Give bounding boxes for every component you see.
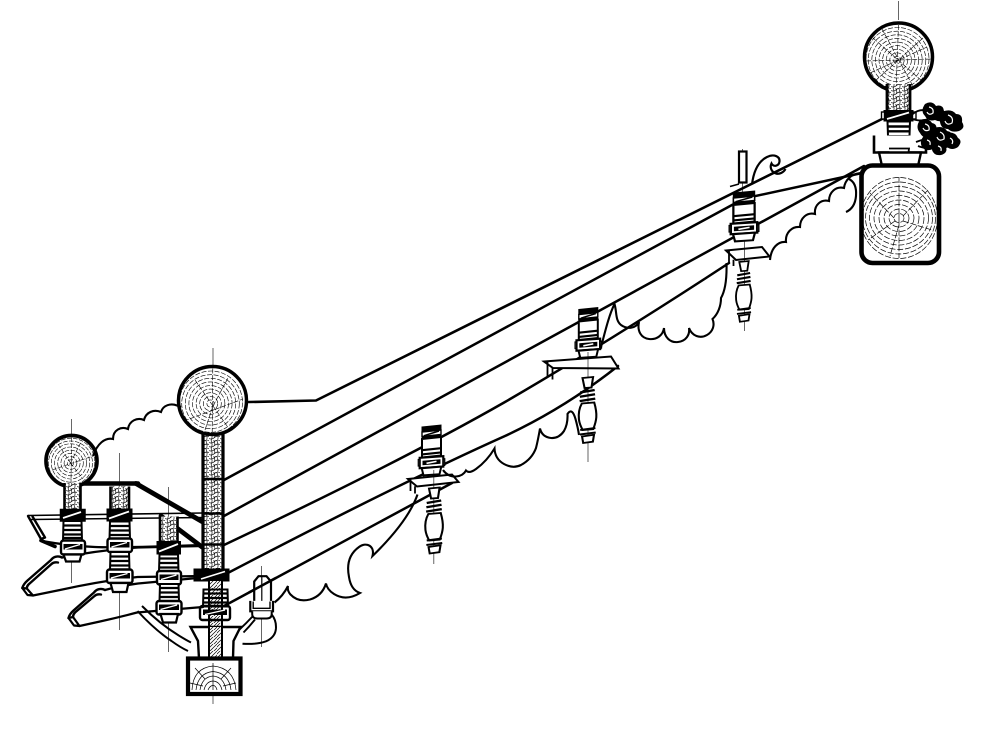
baluster post3: [160, 517, 178, 543]
blade 2 tip curve: [22, 556, 62, 588]
post2 threads2: [110, 552, 130, 570]
post3 collar1 (black): [157, 541, 182, 555]
S1 neck: [887, 84, 910, 111]
rod rib collar: [203, 590, 228, 607]
clamp 3: [729, 191, 759, 241]
strap F2: [224, 166, 864, 516]
post2 skirt: [111, 583, 129, 592]
top sphere S1: [865, 23, 933, 91]
cloud curl below block: [846, 179, 856, 212]
blade 3 tip face: [69, 617, 80, 626]
blade 2 bottom edge: [33, 576, 203, 596]
cup skirt: [879, 153, 921, 167]
handrail H1 bold: [81, 481, 138, 486]
cloud chain shelf3 to block: [770, 173, 861, 260]
tab1 pipe to funnel: [240, 617, 256, 633]
tab1 right loop: [243, 615, 276, 644]
S2 post neck: [65, 483, 81, 511]
cloud chain clamp2 to shelf3: [601, 263, 727, 349]
big sphere finial S3: [179, 367, 247, 435]
top rail A1: [249, 118, 884, 402]
centerline post3: [168, 487, 170, 652]
flower cluster: [912, 102, 963, 155]
centerline pendant 2: [587, 352, 589, 462]
base block B2: [188, 659, 241, 695]
centerline big post: [212, 348, 214, 368]
strap F4: [224, 366, 618, 575]
blade 2 top edge: [62, 546, 203, 558]
S1 ring stack: [888, 122, 911, 137]
post2 collar1 (black): [107, 509, 133, 522]
cloud between spheres: [93, 404, 181, 456]
threaded hanger rod: [209, 581, 222, 659]
centerline pendant 1: [433, 470, 435, 564]
big post shaft: [202, 432, 225, 572]
cloud curl on rail by peg: [752, 155, 786, 184]
tab 1: [240, 566, 277, 647]
tab1 cup: [252, 611, 272, 618]
centerline top sphere: [898, 1, 900, 20]
baluster post2: [111, 487, 130, 511]
tab1 centerline: [261, 566, 263, 647]
clamp 2: [575, 308, 601, 358]
threaded section lower (inside cup): [889, 149, 909, 153]
pendant 2: [579, 377, 597, 443]
blade 1 tip face: [28, 516, 45, 539]
post3 collar2: [157, 571, 181, 585]
timber block B1: [861, 166, 940, 264]
strap F3: [224, 263, 729, 545]
tab1 tube: [254, 576, 271, 604]
post divider 1: [202, 478, 225, 481]
left pipe to funnel: [138, 606, 192, 651]
blade 1 bottom edge: [42, 541, 203, 547]
blade 2 tip face: [22, 588, 33, 596]
blade 3 tip curve: [69, 589, 106, 618]
pendant 1: [425, 488, 443, 554]
handrail D2 bold diagonal: [161, 516, 202, 547]
S2 lower collar: [61, 541, 85, 555]
centerline post2: [119, 453, 121, 630]
S2 clamp collar (black): [61, 510, 86, 522]
cloud chain shelf1 down to tab1: [275, 495, 418, 603]
small sphere finial S2: [46, 436, 97, 487]
big post bottom cap (black): [194, 569, 230, 582]
post3 threads2: [160, 584, 180, 602]
handrail D1 bold diagonal: [136, 484, 202, 522]
post2 threads1: [110, 522, 131, 540]
post2 collar2: [108, 539, 133, 553]
centerline pendant 3: [744, 240, 746, 331]
peg on top rail: [730, 152, 747, 187]
post3 skirt: [161, 614, 179, 623]
post divider 2: [202, 512, 225, 515]
rod inside funnel: [209, 627, 222, 658]
post divider 3: [202, 543, 225, 546]
S1 threaded section: [889, 136, 910, 149]
shelf 1: [408, 475, 459, 494]
post2 collar3: [107, 570, 133, 584]
blade 1 top edge pair: [28, 513, 203, 516]
funnel cup: [191, 627, 241, 659]
shelf 3: [726, 247, 770, 266]
pendant 3: [736, 261, 752, 322]
strap F1: [224, 170, 876, 480]
shelf 2: [544, 357, 619, 380]
post3 threads1: [159, 555, 179, 572]
blade 3 top edge: [105, 578, 203, 591]
tab1 bracket with ears: [250, 601, 273, 611]
cloud chain shelf1 tip to pendant2: [443, 411, 579, 476]
rod lower collar: [200, 606, 230, 620]
S2 skirt: [64, 555, 82, 562]
mounting cup: [874, 136, 926, 153]
clamp 1: [418, 425, 444, 475]
centerline clamp3: [742, 149, 744, 192]
S2 threaded section: [63, 521, 82, 541]
S1 collar (black): [882, 110, 917, 122]
strap F5: [224, 483, 452, 606]
strap F5 over tube: [249, 578, 276, 593]
centerline small sphere post: [71, 419, 73, 583]
blade 3 bottom edge: [80, 607, 204, 626]
post3 collar3: [157, 601, 182, 615]
